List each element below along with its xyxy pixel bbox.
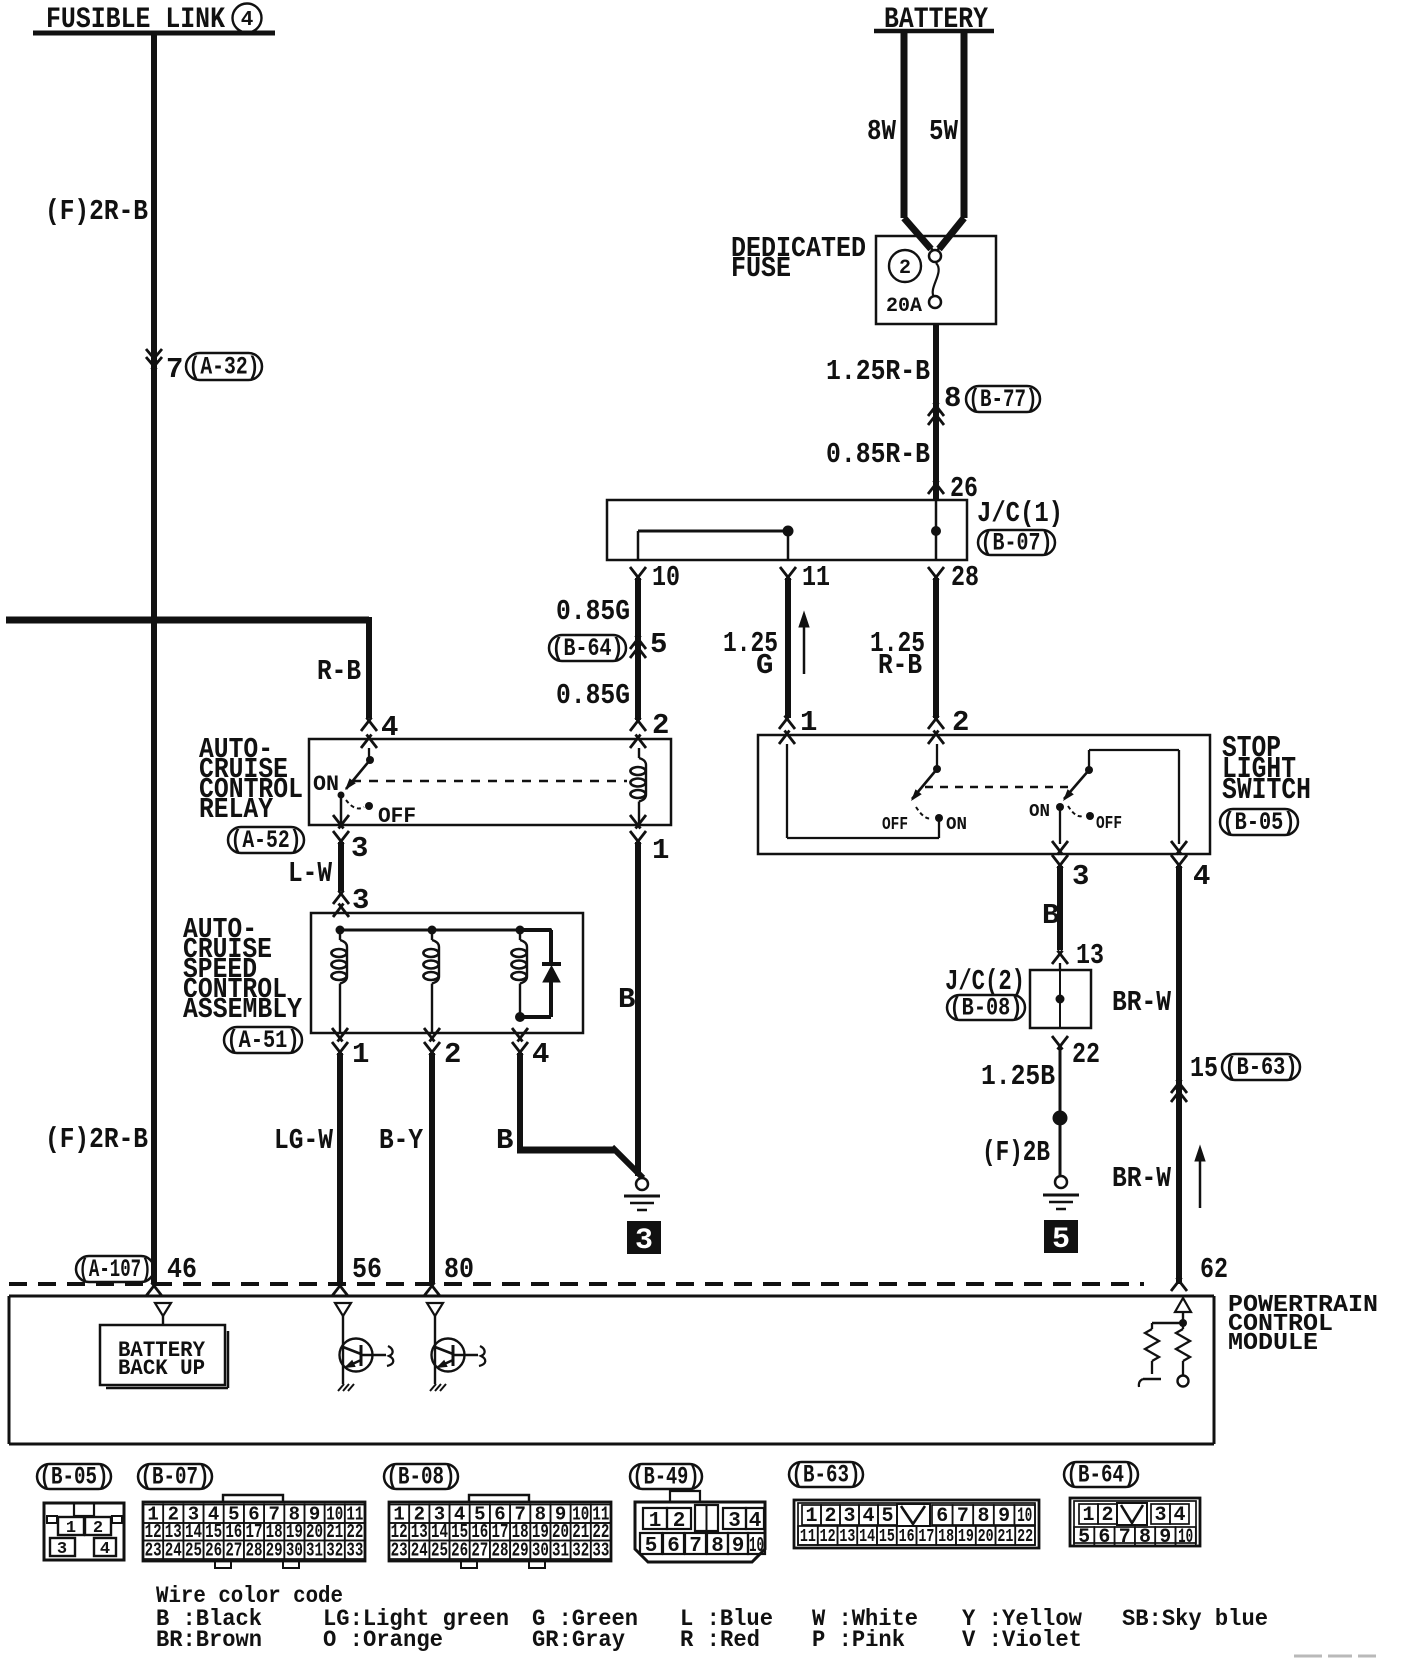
svg-text:33: 33 — [592, 1540, 609, 1562]
svg-text:23: 23 — [391, 1540, 408, 1562]
svg-text:3: 3 — [635, 1224, 653, 1258]
svg-text:10: 10 — [652, 561, 680, 594]
svg-text:10: 10 — [1178, 1526, 1193, 1549]
svg-text:(A-52): (A-52) — [231, 826, 302, 855]
svg-text:28: 28 — [492, 1540, 509, 1562]
svg-text:0.85G: 0.85G — [556, 595, 630, 628]
svg-text:(B-05): (B-05) — [1223, 808, 1296, 837]
svg-text:(B-63): (B-63) — [792, 1460, 861, 1489]
svg-text:B: B — [1042, 899, 1059, 932]
svg-text:RELAY: RELAY — [199, 793, 274, 826]
svg-text:27: 27 — [225, 1540, 242, 1562]
svg-text:5: 5 — [1052, 1223, 1070, 1257]
svg-text:6: 6 — [936, 1505, 948, 1528]
svg-text:L-W: L-W — [288, 857, 332, 890]
svg-text:(B-49): (B-49) — [633, 1462, 700, 1491]
svg-text:7: 7 — [957, 1505, 969, 1528]
svg-text:26: 26 — [205, 1540, 222, 1562]
svg-text:(B-77): (B-77) — [969, 385, 1038, 414]
svg-text:1.25R-B: 1.25R-B — [826, 355, 930, 388]
svg-text:OFF: OFF — [882, 815, 908, 835]
svg-text:25: 25 — [431, 1540, 448, 1562]
svg-text:O :Orange: O :Orange — [323, 1627, 443, 1653]
svg-text:MODULE: MODULE — [1228, 1330, 1318, 1357]
svg-text:(B-64): (B-64) — [1067, 1460, 1136, 1489]
svg-text:32: 32 — [572, 1540, 589, 1562]
svg-text:13: 13 — [1076, 939, 1104, 972]
svg-text:80: 80 — [444, 1253, 474, 1286]
svg-text:4: 4 — [1173, 1504, 1185, 1527]
svg-text:B: B — [496, 1124, 513, 1157]
svg-text:P :Pink: P :Pink — [812, 1627, 905, 1653]
svg-text:5: 5 — [881, 1505, 893, 1528]
svg-text:1: 1 — [66, 1519, 76, 1538]
svg-text:ON: ON — [946, 815, 967, 835]
svg-text:GR:Gray: GR:Gray — [532, 1627, 625, 1653]
svg-text:7: 7 — [166, 353, 183, 386]
svg-text:OFF: OFF — [378, 804, 416, 829]
svg-text:25: 25 — [185, 1540, 202, 1562]
svg-text:1: 1 — [652, 834, 669, 867]
svg-text:7: 7 — [1119, 1526, 1131, 1549]
svg-text:4: 4 — [749, 1510, 762, 1533]
svg-text:2: 2 — [673, 1510, 686, 1533]
svg-text:BR-W: BR-W — [1112, 986, 1171, 1019]
svg-text:24: 24 — [411, 1540, 428, 1562]
svg-text:(A-32): (A-32) — [189, 352, 260, 381]
svg-text:30: 30 — [286, 1540, 303, 1562]
svg-text:62: 62 — [1200, 1253, 1228, 1286]
svg-text:BR:Brown: BR:Brown — [156, 1627, 262, 1653]
svg-text:FUSE: FUSE — [731, 252, 791, 285]
svg-text:1: 1 — [352, 1038, 369, 1071]
svg-text:11: 11 — [800, 1527, 816, 1547]
svg-text:2: 2 — [824, 1505, 836, 1528]
svg-text:SB:Sky blue: SB:Sky blue — [1122, 1606, 1268, 1632]
svg-text:15: 15 — [1190, 1052, 1218, 1085]
svg-text:1: 1 — [649, 1510, 662, 1533]
svg-text:R-B: R-B — [878, 649, 922, 682]
svg-text:17: 17 — [918, 1527, 934, 1547]
svg-text:3: 3 — [1072, 860, 1089, 893]
svg-text:2: 2 — [444, 1038, 461, 1071]
svg-text:5W: 5W — [929, 115, 958, 148]
svg-text:22: 22 — [1017, 1527, 1033, 1547]
svg-text:(B-07): (B-07) — [141, 1462, 210, 1491]
svg-text:(F)2R-B: (F)2R-B — [45, 1123, 148, 1156]
svg-text:4: 4 — [862, 1505, 874, 1528]
svg-text:6: 6 — [667, 1535, 680, 1558]
svg-text:(B-07): (B-07) — [981, 528, 1053, 557]
svg-text:46: 46 — [167, 1253, 197, 1286]
svg-text:3: 3 — [843, 1505, 855, 1528]
svg-text:3: 3 — [1154, 1504, 1166, 1527]
svg-text:9: 9 — [1159, 1526, 1171, 1549]
svg-text:21: 21 — [997, 1527, 1013, 1547]
svg-text:BR-W: BR-W — [1112, 1162, 1171, 1195]
svg-text:22: 22 — [1072, 1038, 1100, 1071]
svg-text:5: 5 — [645, 1535, 658, 1558]
svg-text:(B-08): (B-08) — [950, 993, 1023, 1022]
svg-text:31: 31 — [306, 1540, 323, 1562]
svg-text:28: 28 — [246, 1540, 263, 1562]
svg-text:29: 29 — [512, 1540, 529, 1562]
svg-text:(F)2R-B: (F)2R-B — [45, 195, 148, 228]
svg-text:SWITCH: SWITCH — [1222, 773, 1311, 808]
svg-text:2: 2 — [1101, 1504, 1113, 1527]
svg-text:3: 3 — [57, 1540, 67, 1559]
svg-text:9: 9 — [732, 1535, 745, 1558]
svg-text:30: 30 — [532, 1540, 549, 1562]
svg-text:LG-W: LG-W — [274, 1124, 333, 1157]
svg-text:12: 12 — [820, 1527, 836, 1547]
svg-text:8: 8 — [711, 1535, 724, 1558]
svg-text:(B-63): (B-63) — [1225, 1053, 1298, 1082]
svg-text:B: B — [618, 983, 635, 1016]
svg-text:G: G — [756, 649, 773, 682]
svg-text:32: 32 — [326, 1540, 343, 1562]
svg-text:3: 3 — [351, 832, 368, 865]
svg-text:8: 8 — [977, 1505, 989, 1528]
svg-text:(A-51): (A-51) — [227, 1026, 300, 1055]
svg-text:11: 11 — [802, 561, 830, 594]
svg-text:6: 6 — [1098, 1526, 1110, 1549]
svg-text:0.85G: 0.85G — [556, 679, 630, 712]
svg-text:29: 29 — [266, 1540, 283, 1562]
svg-text:5: 5 — [650, 628, 667, 661]
svg-text:14: 14 — [859, 1527, 875, 1547]
svg-text:1: 1 — [1082, 1504, 1094, 1527]
svg-text:31: 31 — [552, 1540, 569, 1562]
svg-text:4: 4 — [532, 1038, 549, 1071]
svg-text:(F)2B: (F)2B — [982, 1136, 1050, 1169]
svg-text:BACK UP: BACK UP — [118, 1356, 205, 1381]
svg-text:7: 7 — [689, 1535, 702, 1558]
svg-text:16: 16 — [899, 1527, 915, 1547]
svg-text:8: 8 — [1139, 1526, 1151, 1549]
svg-text:ASSEMBLY: ASSEMBLY — [183, 993, 303, 1026]
svg-text:23: 23 — [145, 1540, 162, 1562]
svg-text:27: 27 — [471, 1540, 488, 1562]
svg-text:J/C(1): J/C(1) — [977, 497, 1063, 530]
svg-text:10: 10 — [1017, 1505, 1032, 1528]
svg-text:3: 3 — [728, 1510, 741, 1533]
svg-text:13: 13 — [839, 1527, 855, 1547]
svg-text:2: 2 — [899, 257, 911, 280]
svg-text:ON: ON — [1029, 802, 1050, 822]
svg-text:9: 9 — [998, 1505, 1010, 1528]
svg-text:1: 1 — [805, 1505, 817, 1528]
svg-text:20: 20 — [978, 1527, 994, 1547]
svg-text:24: 24 — [165, 1540, 182, 1562]
svg-text:56: 56 — [352, 1253, 382, 1286]
svg-text:0.85R-B: 0.85R-B — [826, 438, 930, 471]
svg-text:R :Red: R :Red — [680, 1627, 760, 1653]
svg-text:8W: 8W — [867, 115, 896, 148]
svg-text:15: 15 — [879, 1527, 895, 1547]
svg-text:5: 5 — [1078, 1526, 1090, 1549]
svg-text:2: 2 — [93, 1519, 103, 1538]
svg-text:19: 19 — [958, 1527, 974, 1547]
svg-text:(A-107): (A-107) — [79, 1255, 152, 1284]
svg-text:2: 2 — [652, 709, 669, 742]
svg-text:10: 10 — [749, 1535, 764, 1558]
svg-text:OFF: OFF — [1096, 814, 1122, 834]
svg-text:18: 18 — [938, 1527, 954, 1547]
svg-text:4: 4 — [241, 9, 254, 32]
svg-text:1.25B: 1.25B — [981, 1060, 1055, 1093]
svg-text:28: 28 — [951, 561, 979, 594]
svg-text:4: 4 — [100, 1540, 110, 1559]
svg-text:(B-64): (B-64) — [552, 634, 624, 663]
svg-text:B-Y: B-Y — [379, 1124, 423, 1157]
svg-text:4: 4 — [1193, 860, 1210, 893]
svg-text:(B-08): (B-08) — [387, 1462, 456, 1491]
svg-text:V :Violet: V :Violet — [962, 1627, 1082, 1653]
svg-text:(B-05): (B-05) — [40, 1462, 109, 1491]
svg-text:33: 33 — [346, 1540, 363, 1562]
svg-text:8: 8 — [944, 382, 961, 415]
svg-text:26: 26 — [451, 1540, 468, 1562]
svg-text:ON: ON — [313, 772, 339, 797]
svg-text:R-B: R-B — [317, 655, 361, 688]
svg-text:20A: 20A — [886, 295, 922, 318]
